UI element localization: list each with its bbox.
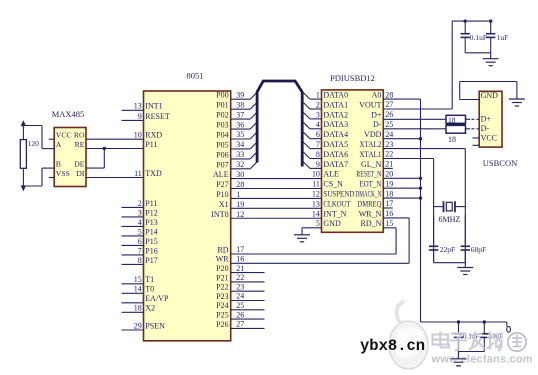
svg-text:19: 19 [385, 179, 393, 188]
U2 pin 3 DATA2 (left) [310, 118, 322, 120]
svg-text:39: 39 [236, 90, 244, 99]
mcu U1 8051 body [144, 91, 231, 341]
svg-text:18: 18 [134, 304, 142, 313]
svg-text:DATA2: DATA2 [323, 110, 348, 119]
svg-text:27: 27 [385, 100, 393, 109]
arrow A off-page (up) [21, 121, 25, 125]
svg-text:7: 7 [138, 246, 142, 255]
U1 pin 33 P06 (right) [231, 158, 251, 160]
svg-text:1: 1 [316, 91, 320, 100]
svg-text:RD_N: RD_N [361, 219, 382, 228]
svg-text:32: 32 [236, 160, 244, 169]
svg-text:P06: P06 [216, 150, 228, 159]
svg-text:5: 5 [316, 219, 320, 228]
svg-text:10: 10 [134, 131, 142, 140]
svg-text:GND: GND [481, 91, 499, 100]
svg-text:A0: A0 [372, 91, 382, 100]
svg-text:RE: RE [75, 140, 85, 149]
junction DMACK_N [419, 196, 422, 199]
svg-text:CS_N: CS_N [323, 180, 343, 189]
ground symbol below C2 [490, 53, 492, 59]
svg-text:P00: P00 [216, 91, 228, 100]
svg-text:P15: P15 [145, 237, 157, 246]
resistor R2 18 [446, 115, 466, 123]
svg-text:120: 120 [28, 139, 39, 148]
svg-text:30: 30 [236, 170, 244, 179]
svg-text:P16: P16 [145, 246, 157, 255]
capacitor C3 22pF [433, 215, 435, 246]
junction C1 [464, 19, 467, 22]
svg-text:RD: RD [217, 245, 228, 254]
U2 pin 8 DATA6 (left) [310, 158, 322, 160]
U1 pin 21 P20 (right) [231, 272, 265, 274]
svg-text:2: 2 [138, 199, 142, 208]
U3 pin VCC [49, 138, 55, 140]
svg-text:27: 27 [236, 320, 244, 329]
svg-text:WR: WR [216, 255, 230, 264]
svg-text:DATA7: DATA7 [323, 160, 348, 169]
U1 pin 38 P01 (right) [231, 108, 251, 110]
svg-text:18: 18 [448, 135, 456, 144]
svg-text:P17: P17 [145, 256, 157, 265]
usb interface U2 PDIUSBD12 body [322, 90, 384, 232]
svg-text:P21: P21 [216, 273, 228, 282]
svg-text:15: 15 [134, 275, 142, 284]
wire net VOUT3.3: U2 VOUT up to caps [383, 108, 452, 110]
svg-text:17: 17 [385, 199, 393, 208]
svg-text:13: 13 [134, 102, 142, 111]
U2 GND pin wire [302, 227, 322, 229]
watermark elecfans big glyphs [433, 332, 503, 351]
wire net D-: U2 D- to R3 [383, 128, 446, 130]
U1 pin 39 P00 (right) [231, 98, 251, 100]
U1 pin 18 X2 (left) [122, 311, 144, 313]
svg-text:EOT_N: EOT_N [359, 180, 381, 189]
svg-text:P22: P22 [216, 283, 228, 292]
U2 pin 9 DATA7 (left) [310, 167, 322, 169]
junction VDD [419, 137, 422, 140]
svg-text:24: 24 [236, 292, 244, 301]
svg-text:INT_N: INT_N [323, 209, 346, 218]
wire net INT: U1 INT0 to U2 INT_N [231, 217, 322, 219]
svg-text:ybx8.cn: ybx8.cn [360, 337, 425, 355]
svg-text:28: 28 [236, 180, 244, 189]
svg-text:X1: X1 [219, 200, 229, 209]
svg-text:DMACK_N: DMACK_N [355, 190, 381, 199]
U3 pin VSS [49, 177, 55, 179]
svg-text:SUSPEND: SUSPEND [323, 190, 354, 199]
svg-text:1: 1 [236, 190, 240, 199]
capacitor C5 0.1uF [458, 322, 460, 334]
svg-text:VOUT: VOUT [359, 100, 381, 109]
svg-text:P14: P14 [145, 227, 157, 236]
svg-text:PDIUSBD12: PDIUSBD12 [330, 73, 375, 83]
J1 shell pin stub [472, 144, 479, 146]
U2 pin 4 DATA3 (left) [310, 128, 322, 130]
svg-text:D-: D- [481, 124, 490, 133]
svg-text:P03: P03 [216, 120, 228, 129]
transceiver U3 MAX485 body [54, 128, 86, 187]
svg-text:8: 8 [138, 256, 142, 265]
U2 pin 2 DATA1 (left) [310, 108, 322, 110]
watermark ybx8 logo circle [389, 301, 428, 369]
svg-text:GND: GND [323, 219, 341, 228]
svg-text:VCC: VCC [481, 134, 497, 143]
wire VCC bottom rail [421, 321, 507, 323]
ground symbol below C5 [458, 352, 460, 359]
svg-text:www.elecfans.com: www.elecfans.com [431, 354, 533, 366]
svg-text:22: 22 [385, 150, 393, 159]
wire net ALE: U1 ALE to U2 pin10 [231, 178, 322, 180]
svg-text:P24: P24 [216, 301, 228, 310]
svg-text:P25: P25 [216, 311, 228, 320]
ground symbol at U2 GND [301, 228, 303, 235]
svg-text:21: 21 [236, 264, 244, 273]
svg-text:26: 26 [236, 310, 244, 319]
svg-text:6MHZ: 6MHZ [439, 215, 461, 224]
svg-text:18: 18 [385, 189, 393, 198]
svg-text:1uF: 1uF [497, 33, 509, 42]
wire net CS: U1 P27 to U2 CS_N [231, 188, 322, 190]
svg-text:DMREQ: DMREQ [357, 199, 381, 208]
svg-text:P27: P27 [216, 180, 228, 189]
U2 pin 1 DATA0 (left) [310, 98, 322, 100]
svg-text:XTAL1: XTAL1 [359, 150, 381, 159]
U1 pin 9 RESET (left) [122, 119, 144, 121]
svg-text:16: 16 [236, 255, 244, 264]
wire net RXD: U3 RO to U1 RXD [86, 138, 144, 140]
svg-text:3: 3 [138, 208, 142, 217]
svg-text:RXD: RXD [145, 131, 162, 140]
svg-text:WR_N: WR_N [359, 209, 382, 218]
svg-text:VCC: VCC [56, 131, 72, 140]
U2 DMREQ stub [383, 207, 393, 209]
svg-text:24: 24 [385, 130, 393, 139]
svg-text:4: 4 [316, 120, 320, 129]
svg-text:28: 28 [385, 90, 393, 99]
svg-text:USBCON: USBCON [483, 158, 517, 168]
wire net WR: U2 WR_N around to U1 WR [383, 217, 409, 219]
U1 pin 36 P03 (right) [231, 128, 251, 130]
wire VCC vertical [420, 99, 422, 322]
svg-text:DATA5: DATA5 [323, 140, 348, 149]
capacitor C4 68pF [464, 215, 466, 246]
U2 GL_N stub [383, 167, 393, 169]
svg-text:D-: D- [373, 120, 382, 129]
wire RE-DE vertical [103, 149, 105, 169]
svg-text:25: 25 [385, 120, 393, 129]
svg-text:DI: DI [76, 169, 85, 178]
svg-text:0.1uF: 0.1uF [470, 33, 487, 42]
wire RESET_N to VCC [383, 177, 420, 179]
svg-text:D+: D+ [481, 115, 492, 124]
wire net XTAL1 [383, 158, 433, 160]
U1 pin 22 P21 (right) [231, 281, 265, 283]
U1 pin 8 P17 (left) [122, 263, 144, 265]
U1 pin 5 P14 (left) [122, 235, 144, 237]
svg-text:TXD: TXD [145, 169, 162, 178]
svg-text:5: 5 [138, 227, 142, 236]
svg-text:DATA1: DATA1 [323, 100, 348, 109]
svg-text:9: 9 [138, 112, 142, 121]
svg-text:INT1: INT1 [145, 102, 162, 111]
ground symbol redraw over watermark [451, 352, 467, 366]
wire VOUT top rail [452, 20, 491, 22]
wire net RD: U2 RD_N around to U1 RD [383, 227, 396, 229]
U1 pin 24 P23 (right) [231, 300, 265, 302]
resistor R1 120 termination [20, 140, 26, 169]
svg-text:68pF: 68pF [471, 245, 486, 254]
watermark elecfans circled glyph [508, 333, 526, 351]
wire net A: U3 A to bus terminal [42, 148, 54, 150]
svg-text:23: 23 [236, 282, 244, 291]
svg-text:P04: P04 [216, 130, 228, 139]
svg-text:DATA3: DATA3 [323, 120, 348, 129]
svg-text:DE: DE [74, 160, 85, 169]
junction C6 on rail [483, 320, 486, 323]
U1 pin 4 P13 (left) [122, 225, 144, 227]
svg-text:29: 29 [134, 321, 142, 330]
capacitor C1 0.1uF [464, 21, 466, 34]
svg-text:13: 13 [312, 199, 320, 208]
resistor R3 18 [446, 125, 466, 133]
svg-text:33: 33 [236, 150, 244, 159]
junction C5 on rail [457, 320, 460, 323]
wire A up stub [22, 126, 24, 140]
U1 pin 15 T1 (left) [122, 283, 144, 285]
J1 VCC pin stub [472, 137, 479, 139]
capacitor C2 1uF [490, 21, 492, 34]
svg-text:P23: P23 [216, 292, 228, 301]
wire DMACK_N to VCC [383, 197, 420, 199]
svg-text:A: A [56, 140, 62, 149]
svg-text:GL_N: GL_N [361, 160, 382, 169]
capacitor C6 10uF [483, 322, 485, 334]
svg-text:P05: P05 [216, 140, 228, 149]
U1 pin 27 P26 (right) [231, 327, 265, 329]
svg-text:38: 38 [236, 100, 244, 109]
wire C1-C2 bottom [465, 52, 491, 54]
svg-text:26: 26 [385, 110, 393, 119]
svg-text:INT0: INT0 [211, 210, 228, 219]
svg-text:X2: X2 [145, 304, 155, 313]
U1 pin 23 P22 (right) [231, 290, 265, 292]
svg-text:10: 10 [312, 170, 320, 179]
svg-text:6: 6 [138, 237, 142, 246]
svg-text:PSEN: PSEN [145, 321, 165, 330]
wire net XTAL2 [383, 148, 465, 150]
svg-text:ALE: ALE [213, 170, 229, 179]
U1 pin 37 P02 (right) [231, 118, 251, 120]
thick bar between R2 and R3 [446, 123, 466, 126]
svg-text:MAX485: MAX485 [52, 109, 85, 119]
wire net TXD: U3 DI to U1 TXD [86, 177, 144, 179]
svg-text:3: 3 [316, 110, 320, 119]
svg-text:P13: P13 [145, 218, 157, 227]
ground symbol at USBCON [516, 82, 518, 100]
svg-text:36: 36 [236, 120, 244, 129]
svg-text:ALE: ALE [323, 170, 339, 179]
wire J1 GND loop to ground [460, 99, 480, 101]
junction RESET_N [419, 177, 422, 180]
junction RE/DE tie [103, 147, 106, 150]
svg-text:RO: RO [74, 131, 85, 140]
svg-text:22pF: 22pF [440, 245, 455, 254]
U1 pin 34 P05 (right) [231, 148, 251, 150]
svg-text:T1: T1 [145, 275, 154, 284]
svg-text:B: B [56, 160, 61, 169]
wire C5-C6 bottom [459, 351, 485, 353]
svg-text:2: 2 [316, 100, 320, 109]
U1 pin 14 T0 (left) [122, 292, 144, 294]
svg-text:DATA0: DATA0 [323, 91, 348, 100]
svg-text:14: 14 [312, 209, 320, 218]
svg-text:25: 25 [236, 301, 244, 310]
svg-text:XTAL2: XTAL2 [359, 140, 381, 149]
ground symbol below C4 [464, 263, 466, 268]
arrow B off-page (down) [21, 186, 25, 190]
wire B down stub [22, 168, 24, 186]
svg-text:D+: D+ [371, 110, 382, 119]
svg-text:20: 20 [385, 170, 393, 179]
crystal Y1 6MHZ [434, 206, 444, 208]
svg-text:P02: P02 [216, 111, 228, 120]
junction EOT_N [419, 187, 422, 190]
U1 pin 32 P07 (right) [231, 168, 251, 170]
wire net VCC: A0 pin to VCC rail [383, 98, 420, 100]
wire VDD to VCC [383, 138, 420, 140]
U1 pin 35 P04 (right) [231, 138, 251, 140]
svg-text:DATA4: DATA4 [323, 130, 348, 139]
data bus P0[0..7]-DATA[0..7] [257, 81, 302, 167]
svg-text:RESET_N: RESET_N [356, 170, 381, 179]
wire net B: U3 B to bus terminal [42, 167, 54, 169]
svg-text:11: 11 [312, 180, 320, 189]
wire crystal caps bottom rail [434, 262, 466, 264]
svg-text:34: 34 [236, 140, 244, 149]
svg-text:23: 23 [385, 140, 393, 149]
svg-text:P20: P20 [216, 264, 228, 273]
svg-text:P01: P01 [216, 101, 228, 110]
svg-text:11: 11 [134, 169, 142, 178]
svg-text:8051: 8051 [187, 71, 204, 81]
svg-text:P11: P11 [145, 199, 157, 208]
svg-text:16: 16 [385, 209, 393, 218]
svg-text:9: 9 [316, 160, 320, 169]
svg-text:P11: P11 [145, 140, 157, 149]
wire R2 to USBCON D+ (dashed) [466, 118, 471, 120]
U1 pin 25 P24 (right) [231, 309, 265, 311]
wire rail drop to connector point [506, 322, 508, 326]
U1 pin 26 P25 (right) [231, 318, 265, 320]
svg-text:37: 37 [236, 110, 244, 119]
svg-text:35: 35 [236, 130, 244, 139]
U1 pin 29 PSEN (left) [122, 329, 144, 331]
connector J1 USBCON body [479, 91, 502, 147]
svg-text:CLKOUT: CLKOUT [323, 199, 350, 208]
U1 pin 7 P16 (left) [122, 254, 144, 256]
svg-text:VDD: VDD [364, 130, 382, 139]
svg-text:15: 15 [385, 219, 393, 228]
svg-text:22: 22 [236, 273, 244, 282]
svg-text:12: 12 [312, 190, 320, 199]
svg-text:8: 8 [316, 150, 320, 159]
svg-text:4: 4 [138, 218, 142, 227]
U1 pin 6 P15 (left) [122, 244, 144, 246]
svg-text:DATA6: DATA6 [323, 150, 348, 159]
svg-text:P07: P07 [216, 160, 228, 169]
U1 pin 13 INT1 (left) [122, 109, 144, 111]
wire net CLKOUT: U1 X1 to U2 CLKOUT [231, 207, 322, 209]
wire net P11/RE-DE: U3 RE to U1 P11 [86, 148, 144, 150]
wire net D+: U2 D+ to R2 [383, 118, 446, 120]
U1 pin 3 P12 (left) [122, 216, 144, 218]
node VCC open connector circle [507, 326, 511, 332]
svg-text:12: 12 [236, 210, 244, 219]
svg-text:P12: P12 [145, 208, 157, 217]
svg-text:P10: P10 [216, 190, 228, 199]
svg-text:VSS: VSS [56, 169, 70, 178]
svg-text:6: 6 [316, 130, 320, 139]
junction C2 [489, 19, 492, 22]
wire U3 DE [86, 167, 104, 169]
U1 pin 2 P11 (left) [122, 206, 144, 208]
svg-text:RESET: RESET [145, 112, 170, 121]
svg-text:T0: T0 [145, 285, 154, 294]
wire EOT_N to VCC [383, 187, 420, 189]
wire R3 to USBCON D- (dashed) [466, 128, 471, 130]
svg-text:P26: P26 [216, 320, 228, 329]
U2 pin 7 DATA5 (left) [310, 148, 322, 150]
svg-text:14: 14 [134, 285, 142, 294]
svg-text:19: 19 [236, 200, 244, 209]
wire net SUSPEND: U1 P10 to U2 SUSPEND [231, 197, 322, 199]
svg-text:17: 17 [236, 245, 244, 254]
svg-text:7: 7 [316, 140, 320, 149]
svg-text:21: 21 [385, 160, 393, 169]
svg-text:EA/VP: EA/VP [145, 294, 169, 303]
U1 pin EA/VP (left) [122, 302, 144, 304]
U2 pin 6 DATA4 (left) [310, 138, 322, 140]
